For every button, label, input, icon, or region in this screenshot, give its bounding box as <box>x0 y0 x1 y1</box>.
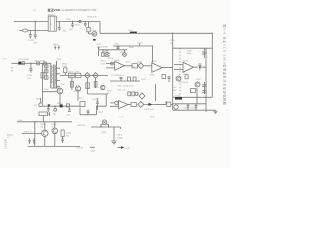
svg-text:1: 1 <box>163 66 164 68</box>
svg-text:C208: C208 <box>60 84 65 86</box>
svg-text:+5V: +5V <box>173 87 177 89</box>
svg-text:C302: C302 <box>90 151 96 153</box>
svg-text:+12V: +12V <box>125 148 131 150</box>
svg-text:V205: V205 <box>183 74 187 76</box>
svg-text:100μ: 100μ <box>187 53 192 55</box>
svg-text:R217 C215 D207: R217 C215 D207 <box>118 86 135 88</box>
svg-text:C306: C306 <box>66 133 72 135</box>
svg-text:TOP: TOP <box>75 72 80 74</box>
svg-text:C212: C212 <box>92 99 98 101</box>
svg-text:·138·: ·138· <box>2 59 7 61</box>
svg-text:R212: R212 <box>79 98 84 100</box>
svg-text:T201: T201 <box>57 59 63 61</box>
svg-text:C207: C207 <box>96 44 102 46</box>
svg-text:D206: D206 <box>137 62 143 64</box>
svg-text:1000μ: 1000μ <box>117 137 124 139</box>
svg-text:R201 47k: R201 47k <box>88 17 98 19</box>
svg-text:+8V: +8V <box>173 90 177 92</box>
svg-text:R304 1k: R304 1k <box>24 132 33 134</box>
svg-text:D202: D202 <box>75 25 80 27</box>
svg-text:R215: R215 <box>126 62 132 64</box>
svg-text:C301: C301 <box>117 135 123 137</box>
svg-text:V202: V202 <box>86 88 92 90</box>
svg-text:510 4.7k: 510 4.7k <box>118 90 127 92</box>
svg-text:N201: N201 <box>115 60 121 62</box>
svg-text:V206: V206 <box>196 79 200 81</box>
svg-text:3DG12: 3DG12 <box>7 135 14 137</box>
svg-text:R202: R202 <box>62 64 68 66</box>
svg-text:V201: V201 <box>91 30 97 32</box>
svg-text:V204: V204 <box>44 89 48 91</box>
svg-text:C311: C311 <box>119 117 125 119</box>
svg-text:R214: R214 <box>101 61 107 63</box>
svg-text:图5-8 金正VCD-2000型视盘机开关电源电路图: 图5-8 金正VCD-2000型视盘机开关电源电路图 <box>222 25 227 106</box>
svg-text:R226 1k: R226 1k <box>181 82 190 84</box>
svg-text:D212: D212 <box>191 108 195 110</box>
svg-text:D203: D203 <box>36 99 41 101</box>
svg-text:C202: C202 <box>66 19 72 21</box>
svg-text:C218: C218 <box>187 51 193 53</box>
svg-text:金正VCD: 金正VCD <box>47 7 61 12</box>
svg-text:R211: R211 <box>107 91 113 93</box>
svg-text:R305: R305 <box>40 124 46 126</box>
svg-text:10k: 10k <box>132 66 135 68</box>
svg-text:R210: R210 <box>57 103 63 105</box>
svg-text:R219: R219 <box>150 75 155 77</box>
svg-text:25: 25 <box>104 51 106 53</box>
svg-text:D213: D213 <box>175 96 181 98</box>
svg-text:N203: N203 <box>183 61 189 63</box>
svg-text:R310: R310 <box>150 117 156 119</box>
svg-text:R204: R204 <box>129 47 134 49</box>
svg-text:B2008: B2008 <box>48 14 55 16</box>
svg-text:D301: D301 <box>102 132 108 134</box>
svg-text:AC: AC <box>11 67 14 70</box>
svg-text:C204: C204 <box>27 75 33 77</box>
svg-text:D211: D211 <box>183 108 187 110</box>
svg-text:V203: V203 <box>120 52 126 54</box>
svg-text:D205: D205 <box>138 42 144 44</box>
svg-text:C214: C214 <box>98 112 103 114</box>
svg-text:+B 125V: +B 125V <box>77 125 86 127</box>
svg-text:R221 270: R221 270 <box>145 109 155 111</box>
svg-text:C213 R216 1k: C213 R216 1k <box>111 75 125 77</box>
svg-text:R213: R213 <box>108 58 114 60</box>
svg-text:223: 223 <box>69 76 72 78</box>
svg-text:C211: C211 <box>101 64 107 66</box>
svg-text:L201 22mH: L201 22mH <box>18 59 29 61</box>
svg-text:+B 15V: +B 15V <box>76 148 83 150</box>
svg-text:C206: C206 <box>114 44 120 46</box>
